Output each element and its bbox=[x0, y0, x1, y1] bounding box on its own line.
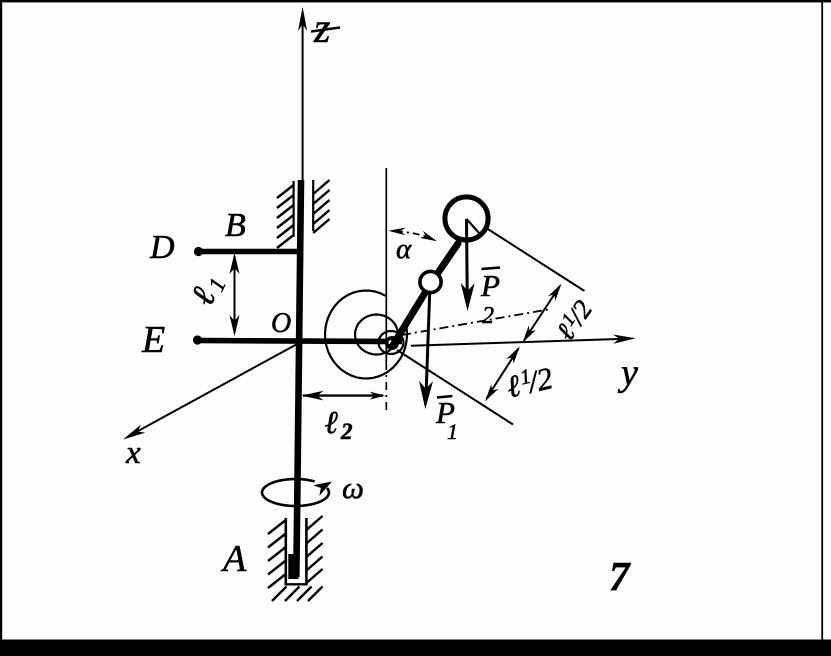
svg-text:x: x bbox=[125, 435, 141, 471]
svg-text:D: D bbox=[149, 229, 175, 266]
svg-text:O: O bbox=[271, 308, 291, 339]
svg-text:P: P bbox=[480, 268, 500, 303]
svg-text:A: A bbox=[220, 538, 247, 580]
svg-text:2: 2 bbox=[482, 303, 494, 329]
svg-text:7: 7 bbox=[609, 553, 631, 599]
svg-text:α: α bbox=[396, 233, 412, 265]
svg-text:1: 1 bbox=[447, 419, 458, 444]
svg-text:E: E bbox=[141, 319, 165, 361]
svg-text:ω: ω bbox=[342, 470, 364, 505]
svg-text:ℓ: ℓ bbox=[325, 404, 339, 440]
svg-text:B: B bbox=[225, 207, 246, 244]
svg-text:2: 2 bbox=[340, 419, 353, 444]
svg-text:y: y bbox=[617, 352, 638, 394]
